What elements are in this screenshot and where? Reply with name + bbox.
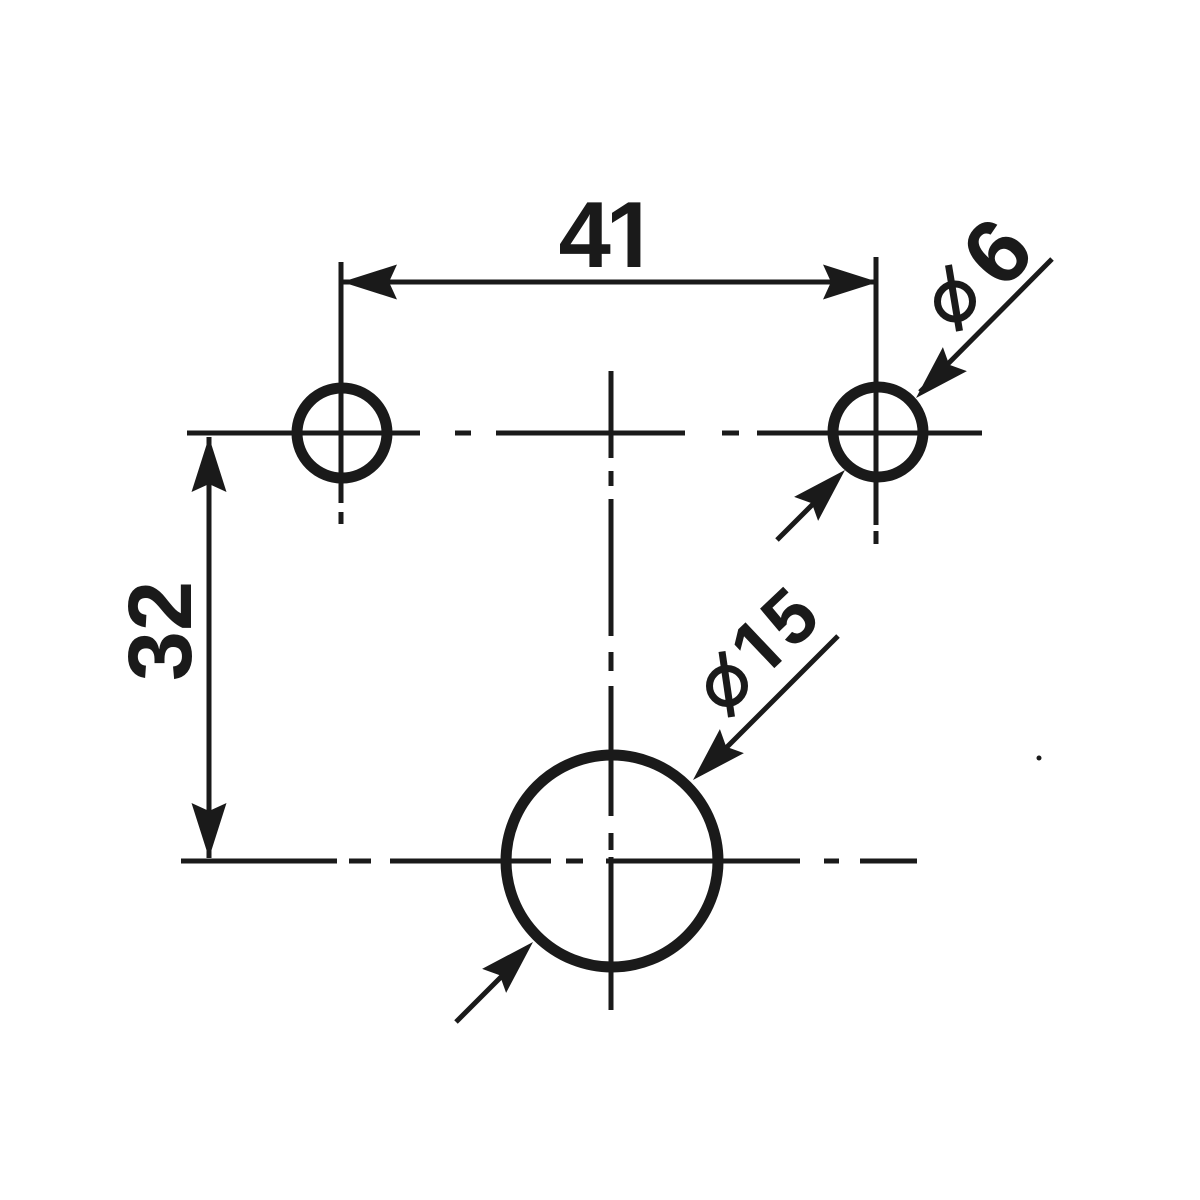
hole H1 (left small hole, Ø6)	[297, 388, 387, 478]
hole H2 (right small hole, Ø6)	[833, 387, 923, 477]
label Ø6: digit 6 (rotated)	[958, 214, 1036, 291]
vertical centerline of hole H3	[609, 371, 614, 1010]
svg-text:32: 32	[111, 581, 211, 681]
leader arrow pointing at hole H2 (lower-left)	[777, 492, 825, 540]
horizontal centerline through small holes	[187, 431, 982, 436]
ink speck	[1037, 756, 1042, 761]
vertical centerline of hole H2 (also extension line for dim 41)	[874, 257, 879, 544]
leader arrowhead pointing at hole H3 (upper)	[693, 729, 744, 780]
dimension text 41	[560, 202, 610, 267]
dimension line 41	[342, 280, 878, 285]
leader arrow pointing at hole H3 (lower-left)	[456, 973, 505, 1022]
label Ø15: diameter symbol circle	[710, 669, 745, 704]
horizontal centerline of hole H3 (also extension line for dim 32)	[181, 859, 917, 864]
vertical centerline of hole H1 (also extension line for dim 41)	[339, 262, 344, 524]
label Ø6: diameter symbol slash	[949, 265, 960, 331]
label Ø6: diameter symbol circle	[938, 284, 973, 319]
leader arrowhead pointing at hole H2 (upper)	[916, 347, 967, 398]
leader line for Ø6 label	[920, 259, 1052, 392]
label Ø15: digits 15 (rotated)	[729, 585, 823, 678]
leader line for Ø15 label	[701, 636, 838, 773]
arrowhead right of dim 41	[823, 265, 878, 300]
arrowhead left of dim 41	[342, 265, 397, 300]
label Ø15: diameter symbol slash	[722, 652, 732, 718]
hole H3 (big hole, Ø15)	[506, 755, 718, 967]
dimension line 32	[207, 437, 212, 858]
arrowhead top of dim 32	[192, 437, 227, 492]
arrowhead bottom of dim 32	[192, 803, 227, 858]
